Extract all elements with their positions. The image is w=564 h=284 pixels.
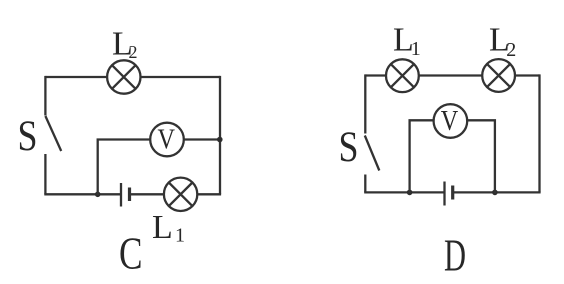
wire: circuit C voltmeter branch (up and right) [98,140,151,196]
lamp L1 (circuit C) [164,178,197,211]
wire: circuit C left vertical upper (to switch) [44,76,46,116]
svg-text:V: V [158,124,176,156]
junction dot: circuit C voltmeter branch to right wire [217,137,223,143]
svg-text:1: 1 [175,224,185,246]
wire: circuit C top-left horizontal segment [45,76,107,78]
wire: circuit C top-right horizontal segment [141,76,221,78]
switch S (circuit C) blade [45,116,61,151]
lamp L2 (circuit D) [482,59,515,92]
svg-text:1: 1 [411,38,421,60]
wire: circuit D left vertical upper (to switch) [364,74,366,133]
wire: circuit C bottom-right segment [197,193,221,195]
wire: circuit D bottom-right segment [453,191,541,193]
wire: circuit D top-left horizontal segment [365,74,386,76]
wire: circuit C left vertical lower (from switch) [44,154,46,194]
wire: circuit C voltmeter to right wire [184,138,220,140]
wire: circuit D voltmeter branch right top and vertical [467,120,495,193]
voltmeter V (circuit D) [434,104,468,138]
svg-text:V: V [441,105,459,137]
battery (circuit D): long positive plate [443,182,445,206]
junction dot: circuit D voltmeter branch left [407,190,413,196]
label L1 (circuit C) [152,209,185,246]
battery (circuit C): short negative plate [128,188,131,202]
junction dot: circuit D voltmeter branch right [492,190,498,196]
label L2 (circuit D) [489,22,516,62]
battery (circuit C): long positive plate [120,183,122,207]
svg-text:D: D [444,230,466,281]
svg-text:2: 2 [129,42,138,62]
wire: circuit C right vertical [219,76,221,194]
wire: circuit C bottom segment battery to lamp L1 [130,193,165,195]
svg-text:L: L [152,209,173,246]
wire: circuit D left vertical lower (from switch) [364,175,366,193]
svg-text:2: 2 [506,39,516,61]
label L1 (circuit D) [393,22,421,61]
wire: circuit D bottom-left segment (to battery) [364,191,444,193]
wire: circuit D voltmeter branch left vertical and top [410,120,434,193]
label L2 (circuit C) [112,26,138,63]
svg-text:S: S [339,124,359,171]
wire: circuit D right vertical [538,74,540,192]
lamp L1 (circuit D) [386,59,419,92]
svg-text:S: S [18,113,38,160]
wire: circuit D top-middle segment [419,74,483,76]
junction dot: circuit C inner branch to bottom wire [95,192,101,198]
svg-text:C: C [119,229,143,279]
battery (circuit D): short negative plate [451,186,454,200]
wire: circuit D top-right segment [515,74,540,76]
wire: circuit C bottom-left segment (to battery) [44,193,121,195]
switch S (circuit D) blade [365,136,380,171]
voltmeter V (circuit C) [150,123,184,157]
lamp L2 (circuit C) [107,60,140,93]
